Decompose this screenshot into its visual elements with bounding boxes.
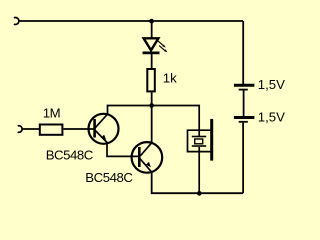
svg-text:1M: 1M xyxy=(43,105,60,120)
LED D1 xyxy=(143,38,168,53)
wire between cells xyxy=(243,91,245,117)
wire R2 to middle junction xyxy=(151,92,153,105)
wire Q1 emitter to Q2 base xyxy=(107,142,139,156)
wire J2 to R1 xyxy=(22,128,39,130)
wire earphone to bottom junction xyxy=(198,147,200,193)
svg-text:1k: 1k xyxy=(163,70,177,85)
svg-text:BC548C: BC548C xyxy=(46,147,94,162)
wire top rail xyxy=(19,20,243,22)
svg-text:1,5V: 1,5V xyxy=(258,77,285,92)
svg-text:BC548C: BC548C xyxy=(85,170,133,185)
wire LED cathode to R2 xyxy=(151,54,153,68)
wire junction to Q1 collector xyxy=(108,106,152,115)
wire battery to bottom rail xyxy=(242,123,244,194)
battery cell 1 xyxy=(234,85,255,89)
wire junction to Q2 collector xyxy=(151,106,153,143)
node bottom junction xyxy=(197,191,202,196)
node top junction xyxy=(149,19,154,24)
terminal J2 (left input) xyxy=(18,126,22,133)
node middle junction xyxy=(149,103,154,108)
wire Q2 emitter to bottom rail xyxy=(152,173,243,194)
earphone LS1 (piezo) xyxy=(188,119,212,161)
wire LED anode xyxy=(151,21,153,38)
transistor Q2 BC548C xyxy=(132,142,163,173)
resistor R2 1k xyxy=(147,69,177,91)
wire R1 to Q1 base xyxy=(64,128,95,130)
terminal J1 (top-left input) xyxy=(14,18,19,25)
resistor R1 1M xyxy=(40,105,63,135)
svg-text:1,5V: 1,5V xyxy=(258,109,285,124)
wire junction to earphone xyxy=(152,106,200,137)
transistor Q1 BC548C xyxy=(89,114,119,144)
battery cell 2 xyxy=(234,118,255,122)
wire top rail down to battery xyxy=(242,21,244,84)
